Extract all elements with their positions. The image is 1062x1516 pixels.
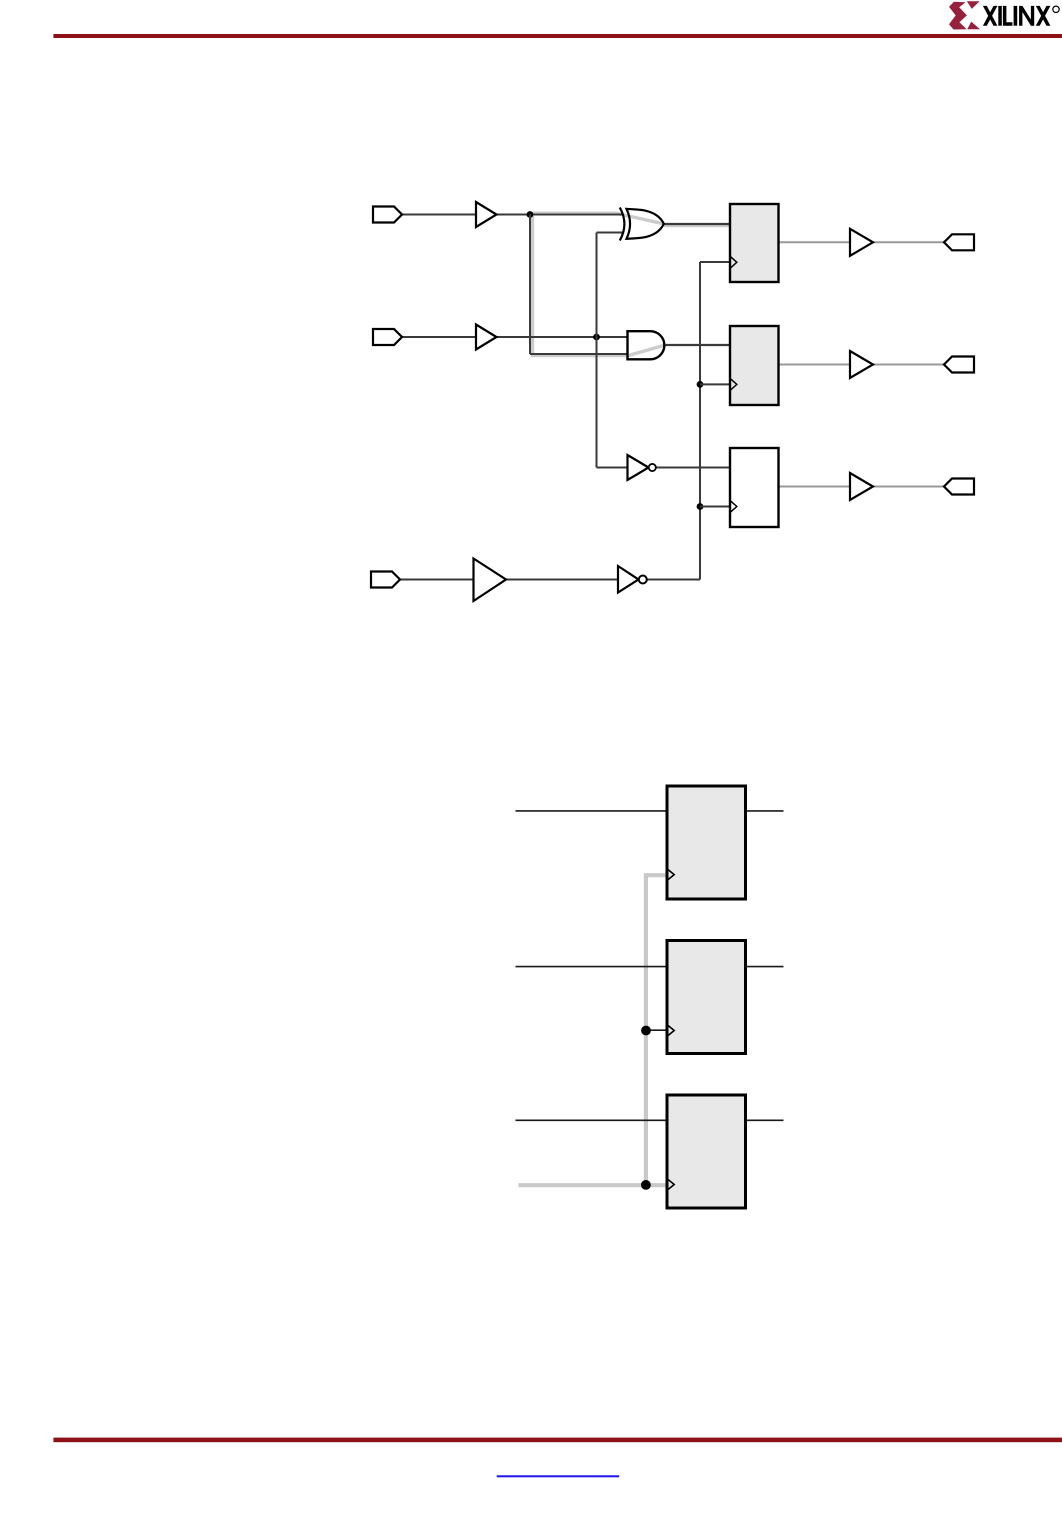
wire obuf1-pad bbox=[873, 241, 945, 243]
clock net vertical bbox=[699, 262, 701, 580]
clock branch ff2 bbox=[697, 381, 730, 388]
wire ff1-obuf1 bbox=[779, 241, 851, 243]
input pad 1 bbox=[373, 207, 402, 223]
output buffer 1 bbox=[850, 229, 873, 256]
clock net thick gray bbox=[519, 875, 668, 1185]
wire inv2-clocknet bbox=[647, 579, 700, 581]
input pad 2 bbox=[373, 329, 402, 345]
input pad 3 bbox=[371, 572, 400, 588]
flip-flop FF2 bbox=[730, 326, 779, 405]
input buffer 2 bbox=[476, 325, 497, 350]
wire Q output FF-B bbox=[746, 966, 784, 968]
wire xor-ff1 bbox=[664, 223, 731, 225]
footer rule bbox=[53, 1438, 1062, 1443]
wire buf3-inv2 bbox=[506, 579, 618, 581]
wire inv1-ff3 bbox=[656, 467, 730, 469]
wire Q output FF-A bbox=[746, 810, 784, 812]
wire pad1-buf1 bbox=[402, 214, 476, 216]
output pad 3 bbox=[944, 479, 974, 495]
wire Q output FF-C bbox=[746, 1119, 784, 1121]
wire D input FF-C bbox=[516, 1119, 668, 1121]
output buffer 3 bbox=[850, 473, 873, 500]
wire pad2-buf2 bbox=[402, 336, 476, 338]
output pad 1 bbox=[944, 234, 974, 250]
footer link underline bbox=[497, 1475, 619, 1477]
wire buf1-xor bbox=[497, 214, 623, 216]
inverter 2 bbox=[618, 566, 647, 593]
AND gate bbox=[628, 331, 665, 359]
wire buf2-and bbox=[497, 336, 629, 338]
flip-flop FFB bbox=[667, 941, 746, 1054]
node B junction dot bbox=[593, 334, 600, 341]
wire ff2-obuf2 bbox=[779, 364, 851, 366]
flip-flop FF1 bbox=[730, 204, 779, 282]
wire node A down bbox=[529, 215, 531, 355]
inverter 1 bbox=[628, 455, 656, 480]
input buffer 1 bbox=[476, 202, 497, 227]
Xilinx logo text bbox=[983, 6, 1059, 26]
XOR gate bbox=[620, 208, 664, 241]
clock branch ff3 bbox=[697, 503, 730, 510]
wire D input FF-B bbox=[516, 966, 668, 968]
output buffer 2 bbox=[850, 351, 873, 378]
wire D input FF-A bbox=[516, 810, 668, 812]
wire and-ff2 bbox=[664, 344, 731, 346]
clock junction dot FF-C bbox=[641, 1180, 651, 1190]
wire obuf3-pad bbox=[873, 486, 945, 488]
wire to XOR lower input bbox=[597, 232, 624, 234]
flip-flop FFA bbox=[667, 786, 746, 899]
clock branch ff1 bbox=[700, 261, 730, 263]
flip-flop FFC bbox=[667, 1095, 746, 1208]
Xilinx logo mark bbox=[949, 1, 980, 29]
gate interior fills bbox=[627, 209, 665, 359]
clock branch FF-B bbox=[641, 1026, 667, 1036]
clock buffer bbox=[474, 559, 507, 602]
wire obuf2-pad bbox=[873, 364, 945, 366]
gray net highlight A->XOR bbox=[533, 213, 730, 355]
header rule bbox=[53, 34, 1062, 38]
wire to inverter input bbox=[597, 467, 629, 469]
node A junction dot bbox=[527, 211, 534, 218]
flip-flop FF3 bbox=[730, 448, 779, 527]
wire node B vertical bbox=[596, 233, 598, 468]
output pad 2 bbox=[944, 357, 974, 373]
wire ff3-obuf3 bbox=[779, 486, 851, 488]
wire pad3-buf3 bbox=[401, 579, 474, 581]
wire to AND lower input bbox=[530, 353, 628, 355]
